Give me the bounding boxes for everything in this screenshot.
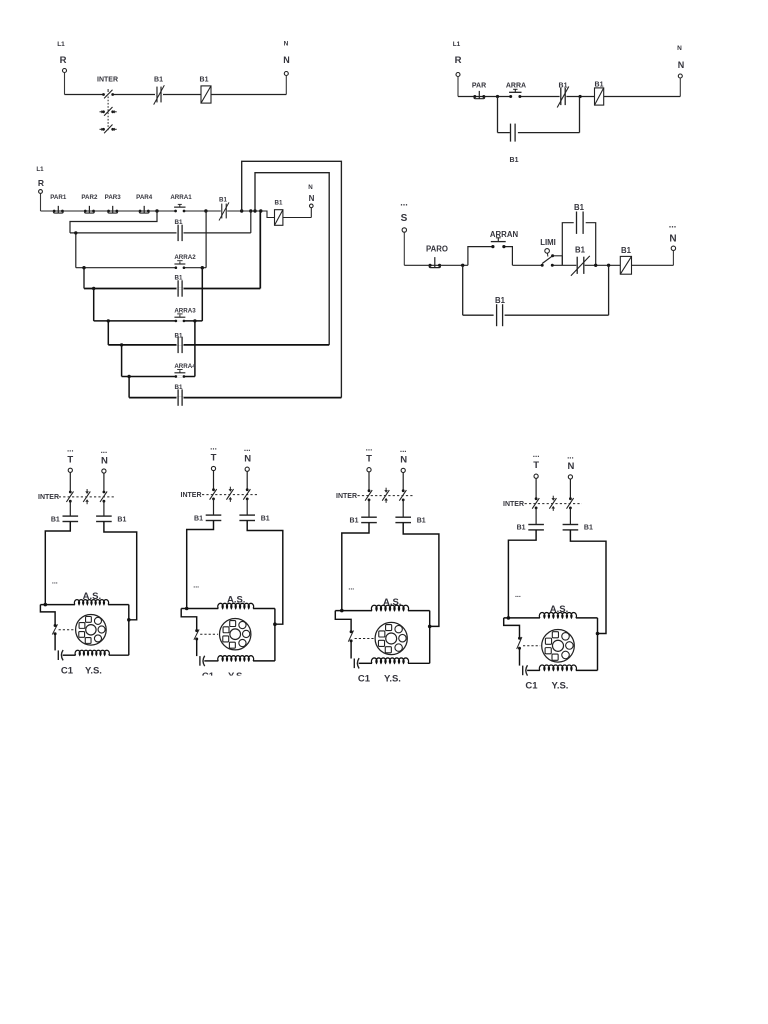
svg-text:...: ... (101, 446, 108, 455)
svg-text:N: N (677, 45, 682, 52)
svg-text:L1: L1 (36, 166, 44, 173)
svg-text:N: N (284, 41, 289, 48)
svg-text:B1: B1 (219, 197, 227, 204)
svg-text:PARO: PARO (426, 245, 448, 254)
svg-text:R: R (455, 55, 462, 66)
svg-text:B1: B1 (194, 515, 203, 522)
svg-text:C1: C1 (358, 674, 371, 685)
svg-text:N: N (101, 456, 108, 467)
svg-text:R: R (38, 178, 44, 188)
svg-text:...: ... (244, 444, 251, 453)
svg-text:LIMI: LIMI (540, 238, 556, 247)
svg-text:B1: B1 (51, 516, 60, 523)
svg-text:B1: B1 (417, 517, 426, 524)
svg-text:PAR3: PAR3 (105, 194, 122, 201)
svg-text:R: R (60, 55, 67, 66)
svg-text:B1: B1 (495, 296, 506, 305)
svg-text:N: N (309, 194, 315, 203)
svg-text:T: T (533, 460, 539, 471)
svg-text:ARRA3: ARRA3 (174, 307, 196, 314)
svg-text:T: T (211, 453, 217, 464)
svg-text:B1: B1 (350, 517, 359, 524)
svg-text:B1: B1 (154, 77, 163, 84)
svg-text:INTER: INTER (503, 501, 524, 508)
svg-text:B1: B1 (275, 200, 283, 207)
svg-text:B1: B1 (517, 525, 526, 532)
svg-text:B1: B1 (584, 525, 593, 532)
svg-text:INTER: INTER (38, 494, 59, 501)
svg-text:Y.S.: Y.S. (384, 674, 401, 685)
svg-text:B1: B1 (117, 516, 126, 523)
svg-text:...: ... (210, 443, 217, 452)
svg-text:ARRA1: ARRA1 (170, 194, 192, 201)
svg-text:B1: B1 (575, 246, 586, 255)
svg-text:T: T (67, 455, 73, 466)
svg-text:PAR1: PAR1 (50, 194, 67, 201)
svg-text:B1: B1 (574, 203, 585, 212)
svg-text:...: ... (400, 445, 407, 454)
svg-text:INTER: INTER (336, 493, 357, 500)
svg-text:C1: C1 (525, 681, 538, 692)
svg-text:T: T (366, 454, 372, 465)
svg-text:S: S (401, 213, 408, 224)
svg-text:C1: C1 (61, 666, 74, 677)
svg-text:B1: B1 (175, 219, 183, 226)
svg-text:N: N (678, 60, 685, 70)
svg-text:B1: B1 (261, 515, 270, 522)
svg-text:...: ... (400, 198, 408, 208)
svg-text:B1: B1 (200, 77, 209, 84)
svg-text:...: ... (669, 220, 677, 230)
svg-text:B1: B1 (175, 332, 183, 339)
svg-text:...: ... (67, 445, 74, 454)
svg-text:...: ... (515, 592, 521, 599)
svg-text:...: ... (567, 452, 574, 461)
svg-text:N: N (669, 234, 676, 245)
svg-text:PAR2: PAR2 (81, 194, 98, 201)
svg-text:N: N (400, 455, 407, 466)
svg-text:PAR: PAR (472, 83, 486, 90)
svg-text:...: ... (193, 583, 199, 590)
svg-text:ARRA2: ARRA2 (174, 254, 196, 261)
svg-text:...: ... (348, 585, 354, 592)
svg-text:L1: L1 (57, 41, 65, 48)
svg-text:ARRAN: ARRAN (490, 230, 519, 239)
svg-text:B1: B1 (175, 275, 183, 282)
svg-text:INTER: INTER (181, 492, 202, 499)
svg-text:Y.S.: Y.S. (552, 681, 569, 692)
svg-text:...: ... (52, 579, 58, 586)
svg-text:ARRA4: ARRA4 (174, 363, 196, 370)
svg-text:PAR4: PAR4 (136, 194, 153, 201)
svg-text:ARRA: ARRA (506, 83, 526, 90)
svg-text:...: ... (533, 450, 540, 459)
svg-text:N: N (308, 184, 313, 191)
svg-text:B1: B1 (559, 83, 568, 90)
svg-text:...: ... (366, 444, 373, 453)
svg-text:N: N (283, 55, 290, 65)
svg-text:B1: B1 (621, 246, 632, 255)
svg-text:Y.S.: Y.S. (85, 666, 102, 677)
svg-text:B1: B1 (510, 157, 519, 164)
svg-text:L1: L1 (453, 41, 461, 48)
svg-text:B1: B1 (175, 384, 183, 391)
svg-text:N: N (244, 454, 251, 465)
svg-text:INTER: INTER (97, 77, 118, 84)
svg-text:N: N (567, 461, 574, 472)
